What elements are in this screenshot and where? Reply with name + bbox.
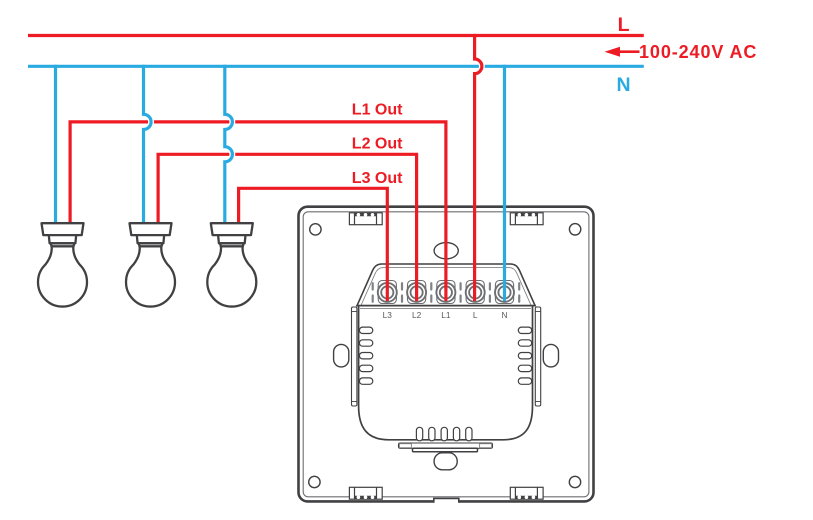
screw bottom-right [569,476,580,487]
lamp DS3 [207,223,256,306]
wire N drop to terminal N [503,65,506,301]
svg-text:L2: L2 [412,310,422,320]
heat-sink comb bottom [416,427,472,441]
terminal L [466,281,485,304]
svg-text:100-240V AC: 100-240V AC [639,42,757,62]
mechanism side rail right [535,307,540,406]
wire lamp1 neutral [54,65,57,225]
terminal block shelf line [356,305,536,307]
svg-text:L: L [473,310,478,320]
screw top-left [310,224,321,235]
mounting clip bottom-left [349,487,382,499]
svg-text:N: N [617,74,631,96]
screw top-right [569,224,580,235]
terminal N [495,281,514,304]
lamp DS2 [126,223,175,306]
plate bottom notch [434,498,459,504]
terminal L3 [378,281,397,304]
bottom flange bar B [413,448,478,452]
svg-text:L1 Out: L1 Out [352,101,403,118]
wire lamp3 neutral (hops over L1 Out and L2 Out) [225,114,233,162]
plate oval bottom-center [434,453,457,470]
wire lamp3 red: L3 Out [239,188,388,301]
wire lamp1 red: L1 Out [70,122,446,301]
plate oval top-center [434,243,458,259]
terminal separators [373,283,520,302]
mounting clip top-left [349,213,382,225]
terminal block housing [357,264,535,306]
switch plate outer [299,207,594,502]
switch plate inner line [303,212,589,497]
wire L drop to terminal L (hop over N) [475,59,482,74]
svg-text:N: N [502,310,508,320]
wire L bus [28,34,644,37]
terminal L1 [436,281,455,304]
svg-text:L3: L3 [383,310,393,320]
wire lamp2 neutral (hop over L1 Out) [144,114,152,129]
wire lamp2 red: L2 Out [158,154,417,301]
mounting clip top-right [510,213,543,225]
lamp DS1 [38,223,87,306]
svg-text:L2 Out: L2 Out [352,136,403,153]
heat-sink comb right [518,327,531,384]
svg-text:L3 Out: L3 Out [352,170,403,187]
bottom flange bar A [399,443,493,448]
wire N bus [28,65,644,68]
plate oval right [543,344,558,367]
heat-sink comb left [359,327,372,384]
plate oval left [334,344,349,367]
mechanism side rail left [352,307,357,406]
svg-text:L: L [618,14,630,36]
screw bottom-left [309,476,320,487]
switch mechanism body [359,306,533,440]
arrow 100-240V AC [605,47,640,57]
terminal L2 [407,281,426,304]
svg-text:L1: L1 [441,310,451,320]
mounting clip bottom-right [510,487,543,499]
